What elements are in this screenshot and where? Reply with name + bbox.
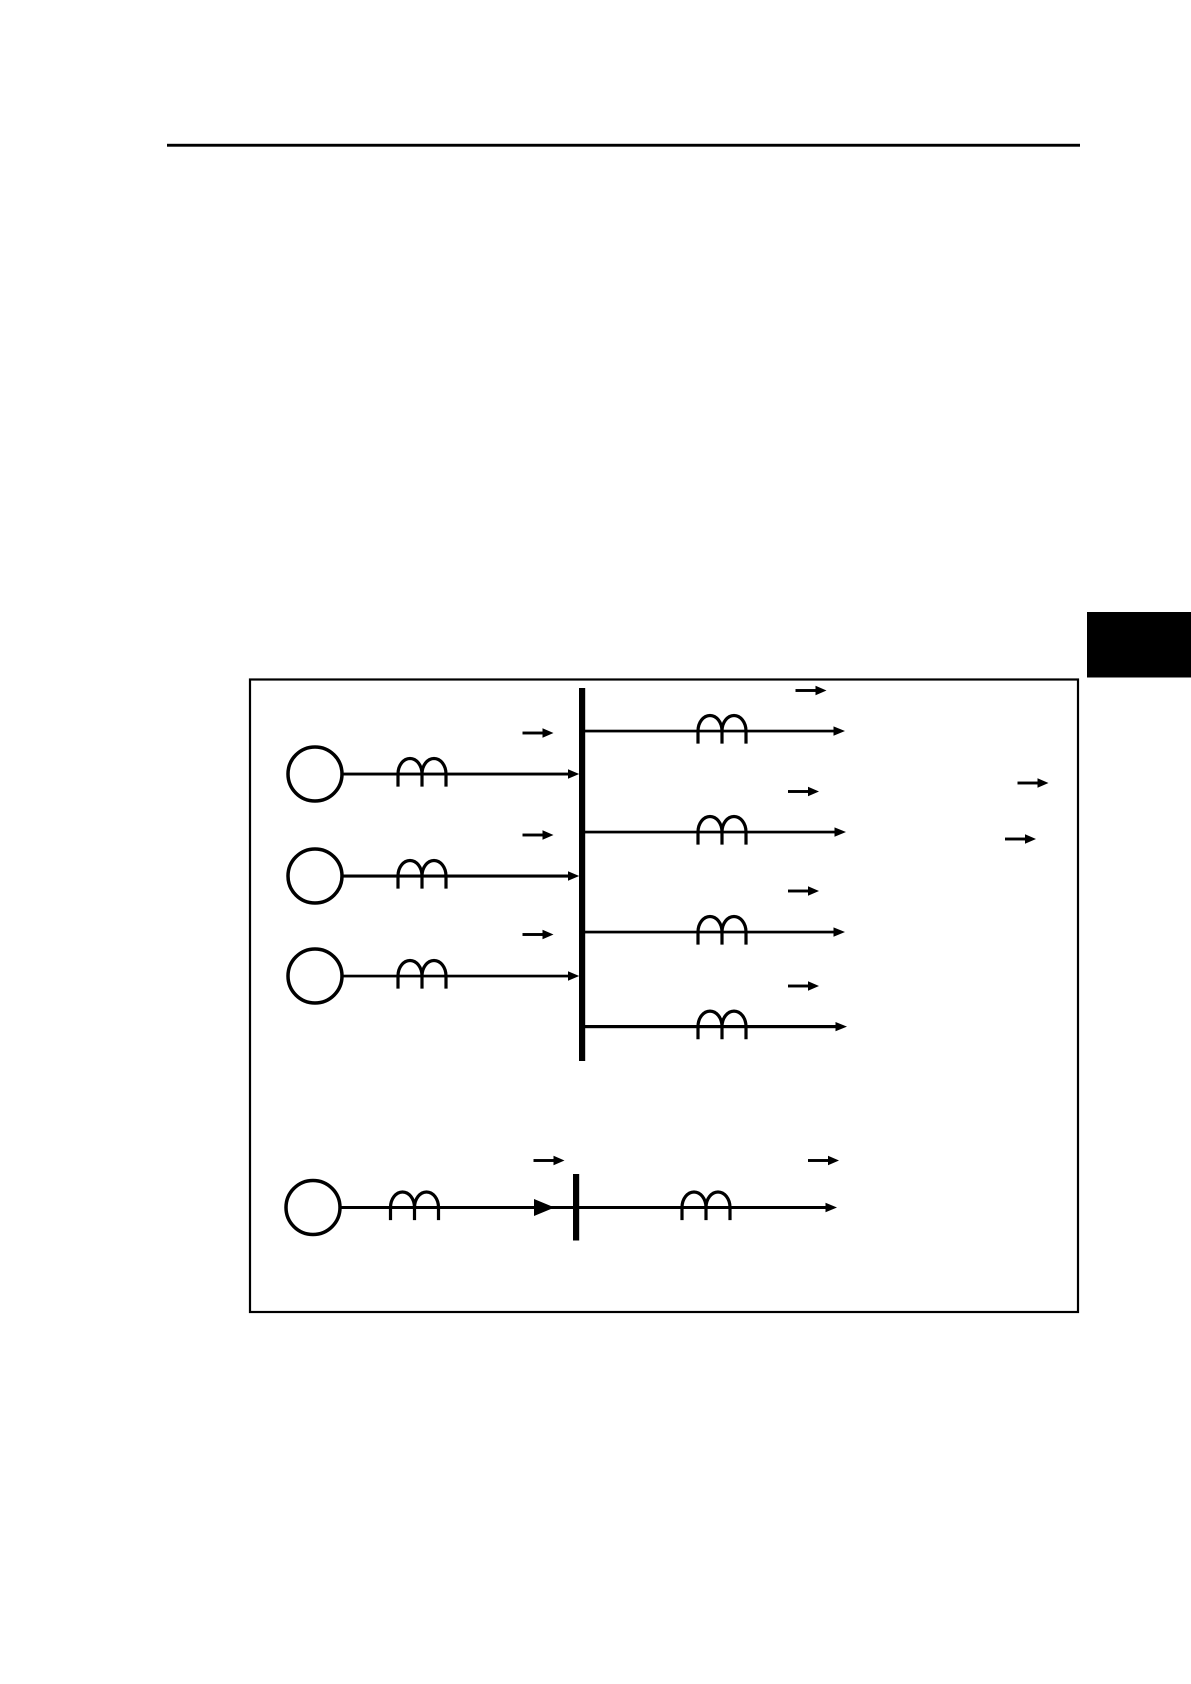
feeder F3 wire with arrowhead (582, 927, 845, 936)
section tab (1087, 612, 1191, 678)
flow arrow above G4 wire (534, 1156, 565, 1165)
CT on G3 wire (398, 961, 446, 989)
flow arrow left of busbar row 3 (523, 930, 554, 939)
flow arrow above feeder F2 (788, 787, 819, 796)
CT on outgoing wire (682, 1192, 730, 1220)
CT on feeder F2 (698, 817, 746, 845)
flow arrow left of busbar row 1 (523, 728, 554, 737)
feeder F4 wire with arrowhead (582, 1022, 847, 1031)
generator G1 (288, 747, 342, 801)
flow arrow above feeder F3 (788, 886, 819, 895)
header rule (167, 144, 1080, 147)
CT on G4 wire (391, 1192, 439, 1220)
wire G2 to busbar with arrowhead (342, 871, 579, 880)
flow arrow above feeder F4 (788, 981, 819, 990)
flow arrow above outgoing wire (808, 1156, 839, 1165)
feeder F2 wire with arrowhead (582, 827, 846, 836)
CT on G2 wire (398, 861, 446, 889)
CT on feeder F4 (698, 1011, 746, 1039)
wire G3 to busbar with arrowhead (342, 971, 579, 980)
wire G1 to busbar with arrowhead (342, 769, 579, 778)
section bar (573, 1174, 579, 1241)
CT on feeder F1 (698, 716, 746, 744)
generator G4 (286, 1181, 340, 1235)
feeder F1 wire with arrowhead (582, 726, 845, 735)
generator G2 (288, 849, 342, 903)
flow arrow above feeder F1 (796, 686, 827, 695)
wire G4 to section bar with big arrowhead (340, 1199, 574, 1216)
export flow arrow lower right (1005, 834, 1036, 843)
export flow arrow upper right (1018, 778, 1049, 787)
flow arrow left of busbar row 2 (523, 830, 554, 839)
busbar (579, 688, 585, 1061)
CT on feeder F3 (698, 917, 746, 945)
outgoing wire from section bar with arrowhead (579, 1203, 837, 1212)
generator G3 (288, 949, 342, 1003)
CT on G1 wire (398, 759, 446, 787)
